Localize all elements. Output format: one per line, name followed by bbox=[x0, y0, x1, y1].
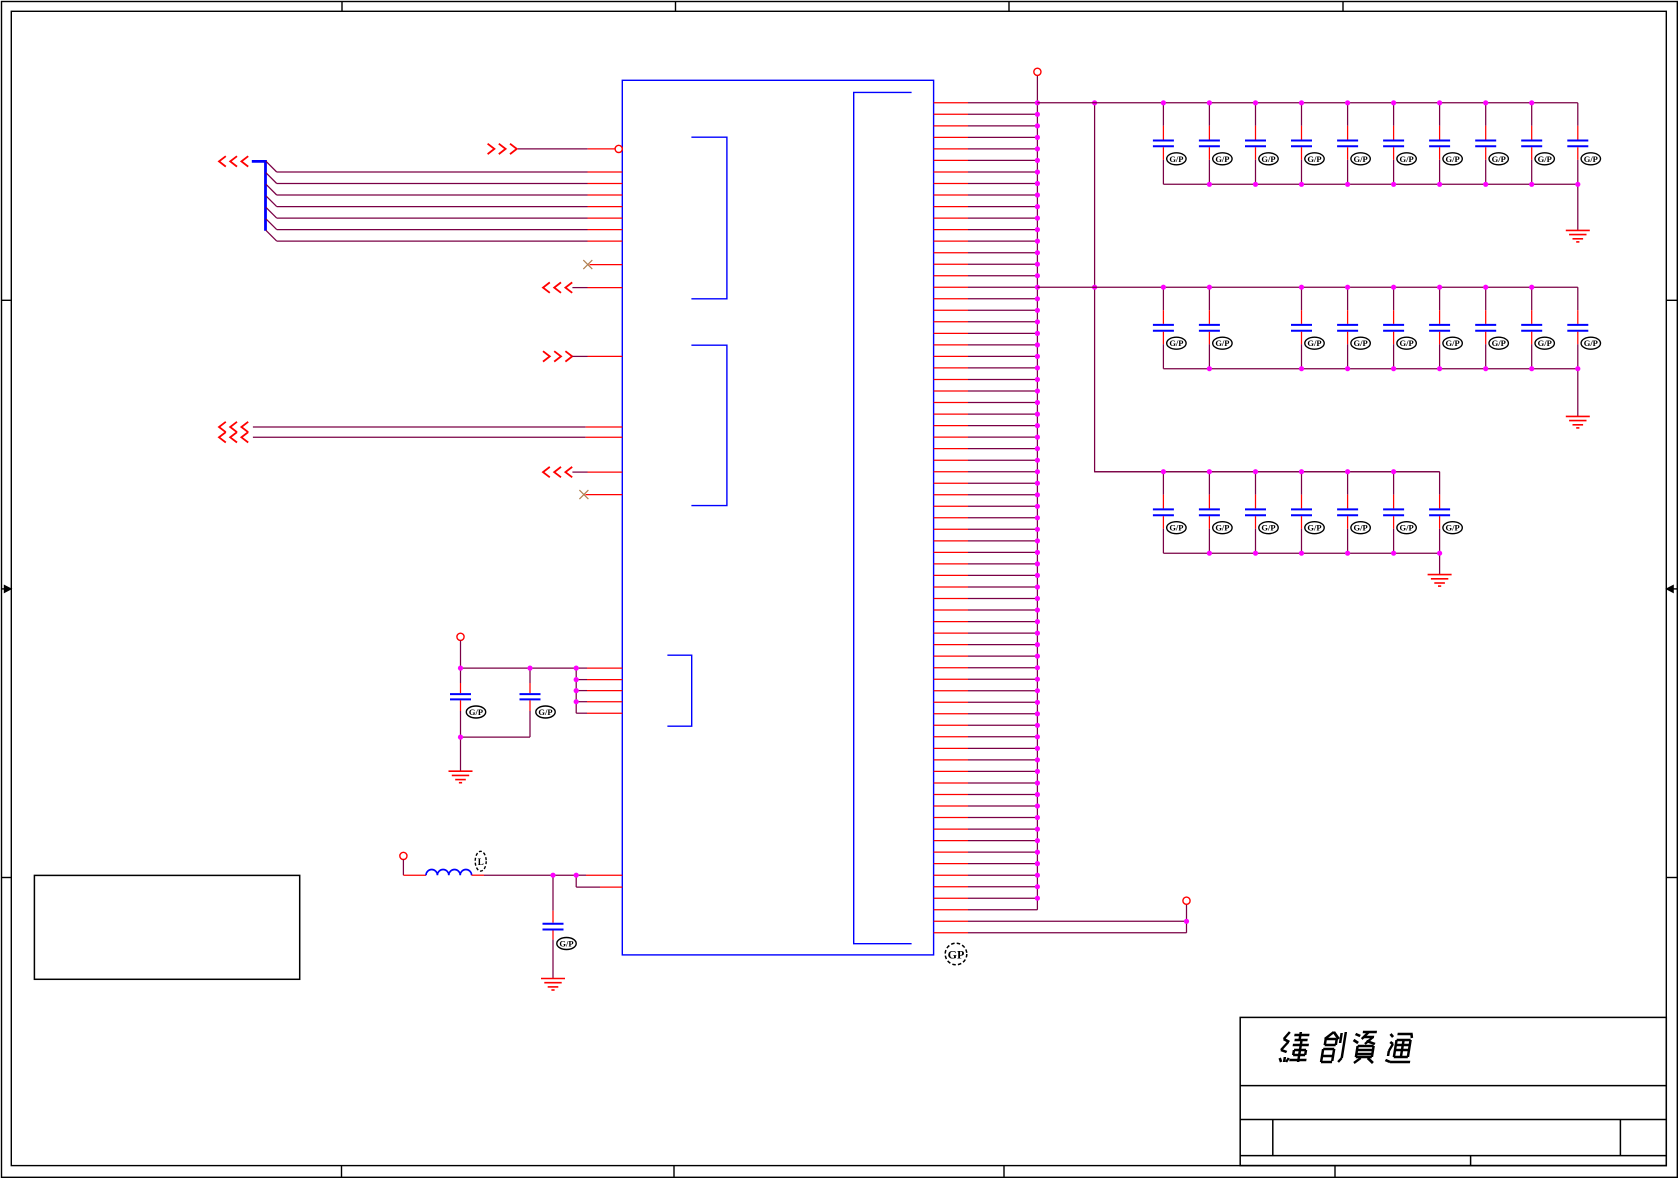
IC right pin wire 60 bbox=[934, 782, 1038, 784]
IC right pin wire 50 bbox=[934, 667, 1038, 669]
IC right pin wire 32 bbox=[934, 459, 1038, 461]
IC right pin wire 56 bbox=[934, 736, 1038, 738]
IC right pin wire 1 bbox=[934, 102, 1038, 104]
IC right pin wire 43 bbox=[934, 586, 1038, 588]
IC right pin wire 7 bbox=[934, 171, 1038, 173]
junction dots inductor row bbox=[550, 873, 578, 878]
IC right pin wire 28 bbox=[934, 413, 1038, 415]
long wire 1 to IC bbox=[253, 426, 622, 428]
feeder wire to capacitor banks bbox=[1095, 103, 1440, 472]
capacitor bank2 C9 bbox=[1567, 287, 1588, 369]
capacitor bank2 C3 bbox=[1291, 287, 1312, 369]
power terminal circle at bus top bbox=[1034, 68, 1041, 75]
svg-text:G/P: G/P bbox=[1446, 154, 1460, 164]
IC right pin wire 14 bbox=[934, 252, 1038, 254]
capacitor bank3 C2 bbox=[1199, 472, 1220, 554]
off-page connector chevrons <<< long row 1 bbox=[219, 422, 248, 432]
wire terminal to inductor bbox=[403, 874, 426, 876]
wire from X to IC (upper) bbox=[590, 264, 623, 266]
IC right pin wire 51 bbox=[934, 678, 1038, 680]
svg-text:G/P: G/P bbox=[1354, 154, 1368, 164]
pin terminal circle at IC left bbox=[615, 145, 622, 152]
title block frame bbox=[1240, 1017, 1666, 1165]
IC right pin wire 42 bbox=[934, 574, 1038, 576]
IC right pin wire 6 bbox=[934, 159, 1038, 161]
bus B1 (thick blue) bbox=[252, 161, 266, 230]
IC right pin wire 57 bbox=[934, 747, 1038, 749]
bus branch wire 3 bbox=[266, 184, 622, 195]
IC right pin wire 59 bbox=[934, 770, 1038, 772]
capacitor bank1 C6 bbox=[1383, 103, 1404, 185]
IC right pin long wire 73 bbox=[934, 932, 1187, 934]
svg-text:L: L bbox=[478, 857, 484, 867]
svg-text:G/P: G/P bbox=[1215, 154, 1229, 164]
svg-text:G/P: G/P bbox=[1169, 523, 1183, 533]
C-left-1 G/P stamp bbox=[466, 706, 485, 718]
capacitor bank2 C5 bbox=[1383, 287, 1404, 369]
ground symbol bank3 bbox=[1428, 575, 1452, 587]
cap bank3 top rail bbox=[1095, 471, 1440, 473]
bus branch wire 1 bbox=[266, 161, 622, 172]
capacitor bank3 C6 bbox=[1383, 472, 1404, 554]
rail of left cap group bbox=[461, 667, 623, 669]
IC U1 pin-group bracket 3 bbox=[667, 655, 691, 726]
IC right pin wire 39 bbox=[934, 540, 1038, 542]
capacitor bank3 C4 bbox=[1291, 472, 1312, 554]
IC right pin wire 23 bbox=[934, 355, 1038, 357]
IC right pin wire 48 bbox=[934, 644, 1038, 646]
IC right pin wire 58 bbox=[934, 759, 1038, 761]
svg-text:G/P: G/P bbox=[1169, 154, 1183, 164]
capacitor bank2 C7 bbox=[1475, 287, 1496, 369]
border bottom ticks bbox=[342, 1166, 1336, 1178]
IC right pin wire 25 bbox=[934, 379, 1038, 381]
IC right pin wire 40 bbox=[934, 551, 1038, 553]
svg-text:G/P: G/P bbox=[1169, 338, 1183, 348]
IC right pin wire 27 bbox=[934, 402, 1038, 404]
capacitor bank1 C10 bbox=[1567, 103, 1588, 185]
svg-text:G/P: G/P bbox=[1261, 154, 1275, 164]
svg-text:G/P: G/P bbox=[1492, 154, 1506, 164]
capacitor C-bottom bbox=[543, 875, 564, 978]
ground symbol bank1 bbox=[1566, 230, 1590, 242]
svg-text:G/P: G/P bbox=[1400, 154, 1414, 164]
capacitor C-left-2 bbox=[520, 668, 541, 737]
IC right pin wire 70 bbox=[934, 897, 1038, 899]
cap bank1 top rail bbox=[1037, 102, 1577, 104]
IC right pin wire 62 bbox=[934, 805, 1038, 807]
IC right pin wire 15 bbox=[934, 263, 1038, 265]
cap bank3 bottom rail bbox=[1163, 552, 1439, 554]
long wire 2 to IC bbox=[253, 436, 622, 438]
bus branch wire 4 bbox=[266, 196, 622, 207]
capacitor bank2 C6 bbox=[1429, 287, 1450, 369]
svg-text:G/P: G/P bbox=[1261, 523, 1275, 533]
IC right pin wire 41 bbox=[934, 563, 1038, 565]
IC right pin wire 37 bbox=[934, 517, 1038, 519]
svg-text:GP: GP bbox=[948, 948, 965, 962]
IC right pin wire 35 bbox=[934, 494, 1038, 496]
capacitor bank2 C2 bbox=[1199, 287, 1220, 369]
svg-text:G/P: G/P bbox=[1446, 338, 1460, 348]
ground symbol bank2 bbox=[1566, 416, 1590, 428]
IC right pin wire 63 bbox=[934, 817, 1038, 819]
IC right pin wire 29 bbox=[934, 425, 1038, 427]
wire row2 to IC bbox=[572, 287, 622, 289]
border right center arrow bbox=[1666, 585, 1677, 592]
cap bank1 bottom rail bbox=[1163, 183, 1577, 185]
junction dots bank1 bbox=[1161, 100, 1581, 187]
IC U1 pin-group bracket 1 bbox=[691, 137, 727, 299]
bus branch wire 6 bbox=[266, 219, 622, 230]
notes box bottom-left bbox=[34, 875, 299, 979]
capacitor bank3 C7 bbox=[1429, 472, 1450, 554]
power net vertical bus bbox=[1036, 75, 1038, 909]
capacitor bank1 C2 bbox=[1199, 103, 1220, 185]
junction dots bank2 bbox=[1161, 285, 1581, 372]
capacitor bank2 C8 bbox=[1521, 287, 1542, 369]
power terminal circle at inductor input bbox=[400, 852, 407, 859]
svg-text:G/P: G/P bbox=[1492, 338, 1506, 348]
ground symbol bottom cap bbox=[541, 979, 565, 991]
IC right pin wire 54 bbox=[934, 713, 1038, 715]
IC right pin wire 69 bbox=[934, 886, 1038, 888]
border top ticks bbox=[342, 2, 1343, 12]
IC right pin wire 11 bbox=[934, 217, 1038, 219]
company name text (CJK strokes) bbox=[1279, 1032, 1415, 1063]
junction dots on vertical bus bbox=[1035, 100, 1040, 901]
svg-text:G/P: G/P bbox=[1538, 338, 1552, 348]
svg-text:G/P: G/P bbox=[1307, 523, 1321, 533]
C-bottom G/P stamp bbox=[557, 938, 576, 950]
IC right pin wire 10 bbox=[934, 206, 1038, 208]
svg-text:G/P: G/P bbox=[1400, 338, 1414, 348]
off-page connector chevrons <<< long row 2 bbox=[219, 432, 248, 442]
capacitor bank1 C4 bbox=[1291, 103, 1312, 185]
off-page connector chevrons (input) top bbox=[488, 144, 517, 154]
cap bank3 ground stem bbox=[1439, 553, 1441, 574]
IC right pin wire 34 bbox=[934, 482, 1038, 484]
svg-text:G/P: G/P bbox=[1538, 154, 1552, 164]
IC right pin wire 20 bbox=[934, 321, 1038, 323]
wire elbow to IC row 68 bbox=[576, 875, 622, 887]
IC right pin wire 30 bbox=[934, 436, 1038, 438]
cap bank2 ground stem bbox=[1577, 369, 1579, 417]
svg-text:G/P: G/P bbox=[1400, 523, 1414, 533]
no-connect X mark lower bbox=[579, 490, 588, 499]
IC right pin wire 47 bbox=[934, 632, 1038, 634]
svg-text:G/P: G/P bbox=[1307, 338, 1321, 348]
IC right pin wire 71 bbox=[934, 909, 1038, 911]
junction dots left cap group bbox=[458, 666, 579, 740]
wire from X to IC (lower) bbox=[586, 494, 623, 496]
IC right pin wire 19 bbox=[934, 309, 1038, 311]
cap bank2 bottom rail bbox=[1163, 368, 1577, 370]
IC right pin wire 68 bbox=[934, 874, 1038, 876]
IC U1 inner section rectangle bbox=[854, 92, 912, 943]
IC right pin wire 65 bbox=[934, 840, 1038, 842]
svg-text:G/P: G/P bbox=[469, 707, 483, 717]
bottom rail of left cap group bbox=[461, 736, 531, 738]
capacitor bank1 C9 bbox=[1521, 103, 1542, 185]
off-page connector chevrons <<< row2 bbox=[543, 282, 572, 292]
border right ticks bbox=[1666, 300, 1677, 877]
bus branch wire 7 bbox=[266, 230, 622, 241]
capacitor bank3 C3 bbox=[1245, 472, 1266, 554]
C-left-2 G/P stamp bbox=[536, 706, 555, 718]
svg-text:G/P: G/P bbox=[1354, 338, 1368, 348]
bus branch wire 2 bbox=[266, 173, 622, 184]
wire row4 to IC bbox=[572, 471, 622, 473]
wire inductor to IC row 67 bbox=[472, 874, 623, 876]
IC right pin wire 24 bbox=[934, 367, 1038, 369]
capacitor bank2 C4 bbox=[1337, 287, 1358, 369]
IC right pin wire 52 bbox=[934, 690, 1038, 692]
IC right pin wire 49 bbox=[934, 655, 1038, 657]
off-page connector chevrons <<< row4 bbox=[543, 467, 572, 477]
IC right pin wire 44 bbox=[934, 598, 1038, 600]
cap bank1 ground stem bbox=[1577, 184, 1579, 230]
svg-text:G/P: G/P bbox=[1354, 523, 1368, 533]
power terminal circle above C-left group bbox=[457, 633, 464, 640]
IC right pin wire 53 bbox=[934, 701, 1038, 703]
stub wires to IC rows 50-53 bbox=[576, 668, 622, 713]
IC right pin wire 22 bbox=[934, 344, 1038, 346]
wire row3 to IC bbox=[572, 355, 622, 357]
svg-text:G/P: G/P bbox=[1215, 338, 1229, 348]
IC right pin wire 8 bbox=[934, 183, 1038, 185]
junction dot on terminal post bbox=[1184, 919, 1189, 924]
IC right pin wire 64 bbox=[934, 828, 1038, 830]
border left center arrow bbox=[2, 585, 12, 592]
IC right pin wire 26 bbox=[934, 390, 1038, 392]
capacitor C-left-1 bbox=[450, 668, 471, 737]
bus off-page connector chevrons <<< bbox=[219, 156, 248, 166]
off-page connector chevrons >>> row3 bbox=[543, 351, 572, 361]
terminal circle right of long wires bbox=[1183, 897, 1190, 904]
IC right pin wire 13 bbox=[934, 240, 1038, 242]
IC right pin wire 46 bbox=[934, 621, 1038, 623]
inductor L1 bbox=[426, 870, 472, 876]
svg-text:G/P: G/P bbox=[1307, 154, 1321, 164]
border left ticks bbox=[2, 300, 12, 877]
IC ground-plane GP stamp bbox=[945, 943, 967, 965]
inductor L1 designator stamp bbox=[475, 851, 486, 871]
IC U1 body outline bbox=[622, 80, 933, 955]
IC right pin wire 38 bbox=[934, 528, 1038, 530]
IC right pin wire 4 bbox=[934, 136, 1038, 138]
IC right pin wire 17 bbox=[934, 286, 1038, 288]
IC right pin wire 2 bbox=[934, 113, 1038, 115]
IC right pin wire 66 bbox=[934, 851, 1038, 853]
IC right pin wire 3 bbox=[934, 125, 1038, 127]
IC right pin wire 18 bbox=[934, 298, 1038, 300]
terminal post right of long wires bbox=[1186, 904, 1188, 933]
IC right pin wire 21 bbox=[934, 332, 1038, 334]
svg-text:G/P: G/P bbox=[1584, 338, 1598, 348]
IC right pin wire 9 bbox=[934, 194, 1038, 196]
capacitor bank3 C5 bbox=[1337, 472, 1358, 554]
no-connect X mark upper bbox=[583, 260, 592, 269]
IC right pin wire 16 bbox=[934, 275, 1038, 277]
capacitor bank1 C7 bbox=[1429, 103, 1450, 185]
ground symbol left cap group bbox=[449, 771, 473, 783]
IC right pin wire 45 bbox=[934, 609, 1038, 611]
cap bank2 top rail bbox=[1037, 286, 1577, 288]
svg-text:G/P: G/P bbox=[1446, 523, 1460, 533]
IC right pin wire 33 bbox=[934, 471, 1038, 473]
bus branch wire 5 bbox=[266, 207, 622, 218]
IC right pin wire 31 bbox=[934, 448, 1038, 450]
capacitor bank1 C5 bbox=[1337, 103, 1358, 185]
IC right pin wire 12 bbox=[934, 229, 1038, 231]
capacitor bank1 C8 bbox=[1475, 103, 1496, 185]
wire to pin terminal top-left bbox=[518, 148, 615, 150]
IC right pin long wire 72 bbox=[934, 920, 1187, 922]
feeder junction dots bbox=[1092, 100, 1097, 290]
IC right pin wire 67 bbox=[934, 863, 1038, 865]
capacitor bank1 C3 bbox=[1245, 103, 1266, 185]
IC right pin wire 55 bbox=[934, 724, 1038, 726]
capacitor bank2 C1 bbox=[1153, 287, 1174, 369]
svg-text:G/P: G/P bbox=[559, 939, 573, 949]
svg-text:G/P: G/P bbox=[1215, 523, 1229, 533]
capacitor bank1 C1 bbox=[1153, 103, 1174, 185]
IC U1 pin-group bracket 2 bbox=[691, 345, 727, 505]
wire terminal down bbox=[402, 860, 404, 876]
IC right pin wire 36 bbox=[934, 505, 1038, 507]
capacitor bank3 C1 bbox=[1153, 472, 1174, 554]
svg-text:G/P: G/P bbox=[1584, 154, 1598, 164]
IC right pin wire 5 bbox=[934, 148, 1038, 150]
svg-text:G/P: G/P bbox=[538, 707, 552, 717]
wire terminal to rail bbox=[460, 641, 462, 669]
IC right pin wire 61 bbox=[934, 794, 1038, 796]
ground stem left cap group bbox=[460, 737, 462, 771]
junction dots bank3 bbox=[1161, 469, 1442, 556]
